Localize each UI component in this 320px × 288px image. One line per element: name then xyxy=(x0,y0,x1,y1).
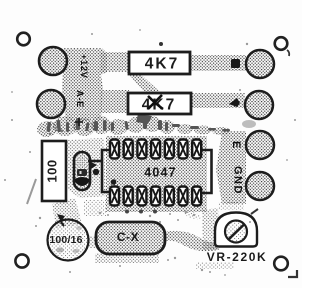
trace: specks below VR text xyxy=(196,262,234,269)
transistor Q1 capsule xyxy=(74,152,90,190)
pen cross over R2 xyxy=(148,95,163,109)
pin 1 xyxy=(110,187,119,206)
pin 14 xyxy=(110,140,119,159)
copper trace area left band xyxy=(62,48,107,122)
trace: electrolytic to C-X xyxy=(87,236,98,248)
trace: specks below C-X xyxy=(95,253,159,263)
svg-text:4047: 4047 xyxy=(144,166,177,180)
pin 9 xyxy=(179,140,188,159)
wire: left side of IC (pin1 loop) xyxy=(102,150,110,192)
trace: left band to resistor R1 xyxy=(100,52,130,72)
dots below bottom pins xyxy=(125,210,129,214)
trimmer screw xyxy=(225,221,247,243)
watermark darker strokes xyxy=(46,114,230,132)
resistor R1 4K7 xyxy=(129,52,190,74)
pin 3 xyxy=(137,187,146,206)
svg-text:C-X: C-X xyxy=(117,230,139,244)
stray diagonal smudge below 100 xyxy=(27,179,36,204)
trace: R1 right to pad xyxy=(190,55,246,71)
trimmer VR1 body xyxy=(215,213,257,247)
wire: capsule to left wire xyxy=(88,160,102,163)
trace: left band to resistor R2 xyxy=(100,90,129,113)
junction blob on left wire xyxy=(93,169,99,175)
trace: right of IC to right pads xyxy=(216,131,246,204)
IC U1 4047 bottom pin row xyxy=(110,187,201,206)
pad hole R1 (B) xyxy=(246,50,274,78)
mounting hole bottom-right xyxy=(274,257,288,271)
pen tail near top-right hole xyxy=(287,50,289,56)
mounting hole top-right xyxy=(275,37,288,50)
svg-text:100/16: 100/16 xyxy=(49,234,82,246)
svg-text:A-E: A-E xyxy=(74,90,85,108)
smudge above pad R3 xyxy=(242,120,256,128)
pad hole R4 (GND) xyxy=(246,172,274,200)
pin 5 xyxy=(165,187,174,206)
pin 12 xyxy=(137,140,146,159)
arrow from capsule to wire xyxy=(91,162,97,169)
pin 8 xyxy=(192,140,201,159)
pin 4 xyxy=(151,187,160,206)
mounting hole top-left xyxy=(17,33,30,46)
svg-text:VR-220K: VR-220K xyxy=(207,250,268,264)
resistor R3 100 xyxy=(42,141,66,201)
pin 6 xyxy=(179,187,188,206)
wire: right side of IC (pin7-8 loop) xyxy=(201,150,212,193)
mounting hole bottom-left xyxy=(15,254,28,267)
svg-text:GND: GND xyxy=(232,166,244,195)
polarity arrow of C1 xyxy=(57,214,65,222)
trace: smudge toward trimmer xyxy=(182,209,201,221)
pin 2 xyxy=(124,187,133,206)
trace: blob left of trimmer xyxy=(202,208,220,250)
trace: blob below capsule above electrolytic xyxy=(52,198,82,228)
svg-text:4K7: 4K7 xyxy=(145,56,179,73)
dark connection pad right of R1 xyxy=(231,59,240,68)
resistor R2 4K7 xyxy=(128,93,191,114)
svg-text:100: 100 xyxy=(45,159,60,182)
copper area under IC U1 xyxy=(106,136,207,212)
IC U1 4047 top pin row xyxy=(110,140,201,159)
X marks in top pins xyxy=(112,142,200,156)
pad hole R2 xyxy=(245,91,273,119)
pin 7 xyxy=(192,187,201,206)
tick above-right of trimmer xyxy=(251,209,258,214)
trace: C-X to trimmer VR1 xyxy=(163,231,218,251)
trace: specks below IC pads xyxy=(84,200,106,216)
trace: diagonal R1 to R2 xyxy=(126,71,159,94)
mottling inside C1 xyxy=(56,248,64,253)
pad hole L2 xyxy=(37,90,65,118)
capacitor C-X xyxy=(96,222,165,254)
plus mark below A-E xyxy=(75,118,83,126)
corner registration mark bottom-right xyxy=(288,270,297,277)
pin 13 xyxy=(124,140,133,159)
pin 10 xyxy=(165,140,174,159)
svg-text:+12V: +12V xyxy=(78,54,89,79)
electrolytic capacitor C1 100/16 xyxy=(48,214,89,261)
pin 11 xyxy=(151,140,160,159)
X marks in bottom pins xyxy=(112,189,200,203)
dark connection pad right of R2 xyxy=(229,98,240,107)
scattered scan noise xyxy=(4,29,296,276)
trace: dots above trimmer xyxy=(218,202,244,210)
pad hole L1 xyxy=(39,47,67,75)
screw slot xyxy=(229,225,244,240)
trace: R2 right to pad xyxy=(190,93,245,108)
trace: area around transistor capsule xyxy=(67,138,106,198)
svg-text:E: E xyxy=(230,141,242,148)
tiny dot above R1 xyxy=(159,42,163,46)
junction blob above bottom pin1 xyxy=(111,179,117,185)
watermark stamp band xyxy=(36,116,230,138)
pad hole R3 (E) xyxy=(246,131,274,159)
